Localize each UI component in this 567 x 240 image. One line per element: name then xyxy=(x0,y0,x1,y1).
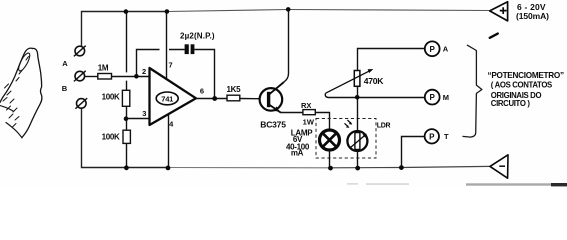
wire + rail to R2 (divider, hops over pin-2 wire) xyxy=(126,12,128,91)
junction + rail / pin 7 xyxy=(165,9,170,14)
svg-text:A: A xyxy=(443,45,449,54)
svg-text:100K: 100K xyxy=(102,132,120,141)
svg-text:100K: 100K xyxy=(102,92,120,101)
svg-text:1M: 1M xyxy=(98,64,109,73)
scan artifact bars at bottom xyxy=(347,183,567,186)
svg-text:3: 3 xyxy=(142,109,146,118)
junction ground rail / divider xyxy=(124,165,129,170)
wire R1 to op-amp pin 2 xyxy=(112,76,150,78)
wire pot top to terminal P-A xyxy=(358,49,425,71)
hand pointer sketch xyxy=(0,48,42,138)
svg-text:A: A xyxy=(62,59,68,68)
terminal P-A xyxy=(425,41,440,56)
resistor R1 1M xyxy=(98,74,112,80)
svg-text:741: 741 xyxy=(161,94,173,103)
LDR LDR1 xyxy=(345,120,368,151)
junction ground rail / pin 4 xyxy=(166,166,171,171)
wire lamp to ground rail xyxy=(329,150,331,168)
junction + rail / divider xyxy=(124,9,129,14)
terminal P-M xyxy=(425,90,440,105)
wire pot wiper to terminal P-M xyxy=(325,93,425,97)
wire terminal P-T to ground rail xyxy=(402,137,425,168)
screw terminal (to + rail) xyxy=(74,46,86,57)
junction output / feedback xyxy=(212,96,217,101)
dashed optocoupler box xyxy=(316,119,376,159)
positive supply rail (top) with drop to top terminal xyxy=(82,12,168,47)
svg-text:P: P xyxy=(430,93,436,102)
wire op-amp output to 1K5 xyxy=(196,98,227,100)
resistor R3 100K xyxy=(123,130,130,143)
feedback wire pin2 to C1 (hops over pin-7 wire) and C1 to output node xyxy=(137,50,215,99)
positive supply terminal xyxy=(490,2,508,21)
svg-text:6: 6 xyxy=(200,86,204,95)
svg-text:2: 2 xyxy=(142,67,146,76)
tick mark xyxy=(490,34,498,38)
transistor Q1 BC375 xyxy=(260,82,284,113)
svg-text:B: B xyxy=(62,84,68,93)
wire R3 to ground rail xyxy=(126,143,128,167)
svg-text:1K5: 1K5 xyxy=(227,85,242,94)
wire emitter to RX xyxy=(281,112,303,114)
svg-text:BC375: BC375 xyxy=(260,119,286,129)
svg-text:P: P xyxy=(430,45,436,54)
wire RX to lamp xyxy=(315,113,329,131)
negative supply terminal xyxy=(490,155,508,178)
lamp LP1 xyxy=(320,130,340,150)
svg-text:“POTENCIOMETRO”: “POTENCIOMETRO” xyxy=(488,71,564,80)
svg-text:( AOS CONTATOS: ( AOS CONTATOS xyxy=(491,81,552,90)
wire pot node to LDR xyxy=(357,86,359,131)
annotation: potentiometer note xyxy=(488,71,564,108)
svg-text:470K: 470K xyxy=(364,76,384,86)
brace grouping P terminals xyxy=(463,45,482,137)
svg-text:M: M xyxy=(443,93,449,102)
wire R2 to divider midpoint and R3 xyxy=(126,106,128,130)
terminal P-T xyxy=(425,129,439,143)
junction ground rail / T wire xyxy=(399,165,404,170)
wire collector to + rail xyxy=(284,10,289,83)
wire pin 7 to + rail xyxy=(166,12,168,80)
svg-text:T: T xyxy=(444,132,449,141)
junction pin 2 / feedback xyxy=(134,74,139,79)
screw terminal A xyxy=(74,71,86,82)
wire 1K5 to Q1 base xyxy=(240,98,260,100)
junction ground rail / LDR xyxy=(355,166,360,171)
resistor RX xyxy=(303,110,315,115)
svg-text:CIRCUITO ): CIRCUITO ) xyxy=(491,99,531,108)
junction divider midpoint xyxy=(124,116,129,121)
svg-text:RX: RX xyxy=(301,101,311,110)
resistor R4 1K5 xyxy=(227,95,240,101)
resistor R2 100K xyxy=(122,90,129,106)
wire midpoint to op-amp pin 3 xyxy=(127,118,150,120)
op-amp U1 741 xyxy=(150,68,197,125)
LAMP value label xyxy=(286,128,313,157)
svg-text:1W: 1W xyxy=(303,117,315,126)
potentiometer P1 470K xyxy=(326,69,374,93)
svg-text:7: 7 xyxy=(169,60,173,69)
svg-text:P: P xyxy=(429,132,435,141)
junction pot bottom / M wire xyxy=(355,95,360,100)
svg-text:(150mA): (150mA) xyxy=(516,11,549,21)
capacitor C1 2u2 xyxy=(185,44,195,54)
svg-text:2µ2(N.P.): 2µ2(N.P.) xyxy=(180,32,215,41)
screw terminal (to ground rail) xyxy=(75,98,87,109)
junction + rail / collector xyxy=(286,7,291,12)
ground rail (bottom) with drop from terminal B xyxy=(82,108,169,167)
wire pin 4 to ground rail xyxy=(168,114,170,168)
svg-text:mA: mA xyxy=(291,148,304,157)
junction ground rail / lamp xyxy=(328,166,333,171)
wire LDR to ground rail xyxy=(357,151,359,168)
svg-text:LDR: LDR xyxy=(377,122,391,129)
wire terminal A to R1 xyxy=(85,76,98,78)
